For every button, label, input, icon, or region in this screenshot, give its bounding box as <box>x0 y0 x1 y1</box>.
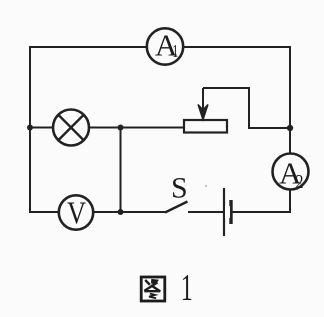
wire: bottom wire left segment <box>30 211 165 213</box>
voltmeter V <box>59 195 93 229</box>
ammeter A2 <box>273 154 309 190</box>
svg-text:1: 1 <box>181 267 193 309</box>
node: junction wiper-right wire <box>287 125 293 131</box>
svg-text:V: V <box>67 195 86 231</box>
wire: rheostat wiper wire <box>203 88 290 128</box>
wire: middle vertical wire <box>120 128 122 213</box>
svg-text:S: S <box>171 172 188 205</box>
node: junction lamp-right <box>118 125 124 131</box>
battery <box>224 188 231 236</box>
node: junction left-lamp <box>27 125 33 131</box>
wire: lamp row wire <box>30 127 184 129</box>
wire: left vertical wire <box>29 46 31 213</box>
svg-text:1: 1 <box>172 41 178 61</box>
lamp L <box>53 110 89 146</box>
caption: character tu (figure) <box>141 277 165 301</box>
rheostat R <box>184 88 227 133</box>
switch S <box>165 202 188 213</box>
ammeter A1 <box>147 28 183 64</box>
wire: top wire <box>30 46 290 48</box>
scan speck <box>205 185 207 187</box>
wire: right vertical wire <box>289 46 291 213</box>
svg-text:2: 2 <box>296 171 304 193</box>
wire: bottom wire right segment <box>188 211 290 213</box>
node: junction bottom <box>118 209 124 215</box>
